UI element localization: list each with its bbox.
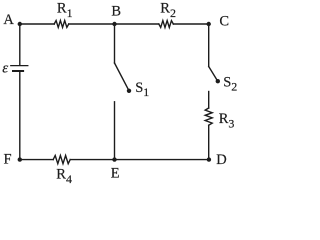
node D junction dot [207,157,211,161]
battery long plate [11,65,28,67]
wire A down to battery [19,24,21,65]
switch S2 blade [209,67,218,81]
wire battery to F [19,72,21,160]
svg-text:C: C [219,13,229,29]
battery short plate [13,70,23,72]
resistor R1 [54,21,69,28]
node B junction dot [112,22,116,26]
wire S1 lower contact to E [114,102,116,160]
wire R3 to D [208,125,210,159]
wire R1 to B [69,23,115,25]
wire B down to switch S1 [114,24,116,63]
wire S2 lower contact to R3 [208,92,210,109]
svg-text:B: B [111,4,121,20]
svg-text:R3: R3 [219,111,235,130]
wire B to R2 [115,23,159,25]
svg-text:E: E [111,165,120,181]
svg-text:S1: S1 [135,80,149,99]
wire C down to switch S2 [208,24,210,67]
svg-text:A: A [3,12,14,28]
svg-text:S2: S2 [223,74,237,93]
wire A to R1 [20,23,54,25]
svg-text:R1: R1 [57,1,73,20]
svg-text:R2: R2 [160,1,176,20]
wire R4 to E [70,159,114,161]
resistor R3 [205,108,212,125]
switch S1 blade [115,63,129,90]
node A junction dot [18,22,22,26]
svg-text:F: F [4,151,12,167]
node E junction dot [112,157,116,161]
node F junction dot [18,157,22,161]
svg-text:ε: ε [2,61,8,77]
switch S1 pivot dot [127,89,131,93]
node C junction dot [207,22,211,26]
svg-text:D: D [216,152,226,168]
resistor R4 [53,156,70,164]
wire F to R4 [20,159,53,161]
switch S2 pivot dot [216,79,220,83]
resistor R2 [159,21,174,28]
svg-text:R4: R4 [56,167,72,186]
wire E to D [115,159,209,161]
wire R2 to C [173,23,208,25]
